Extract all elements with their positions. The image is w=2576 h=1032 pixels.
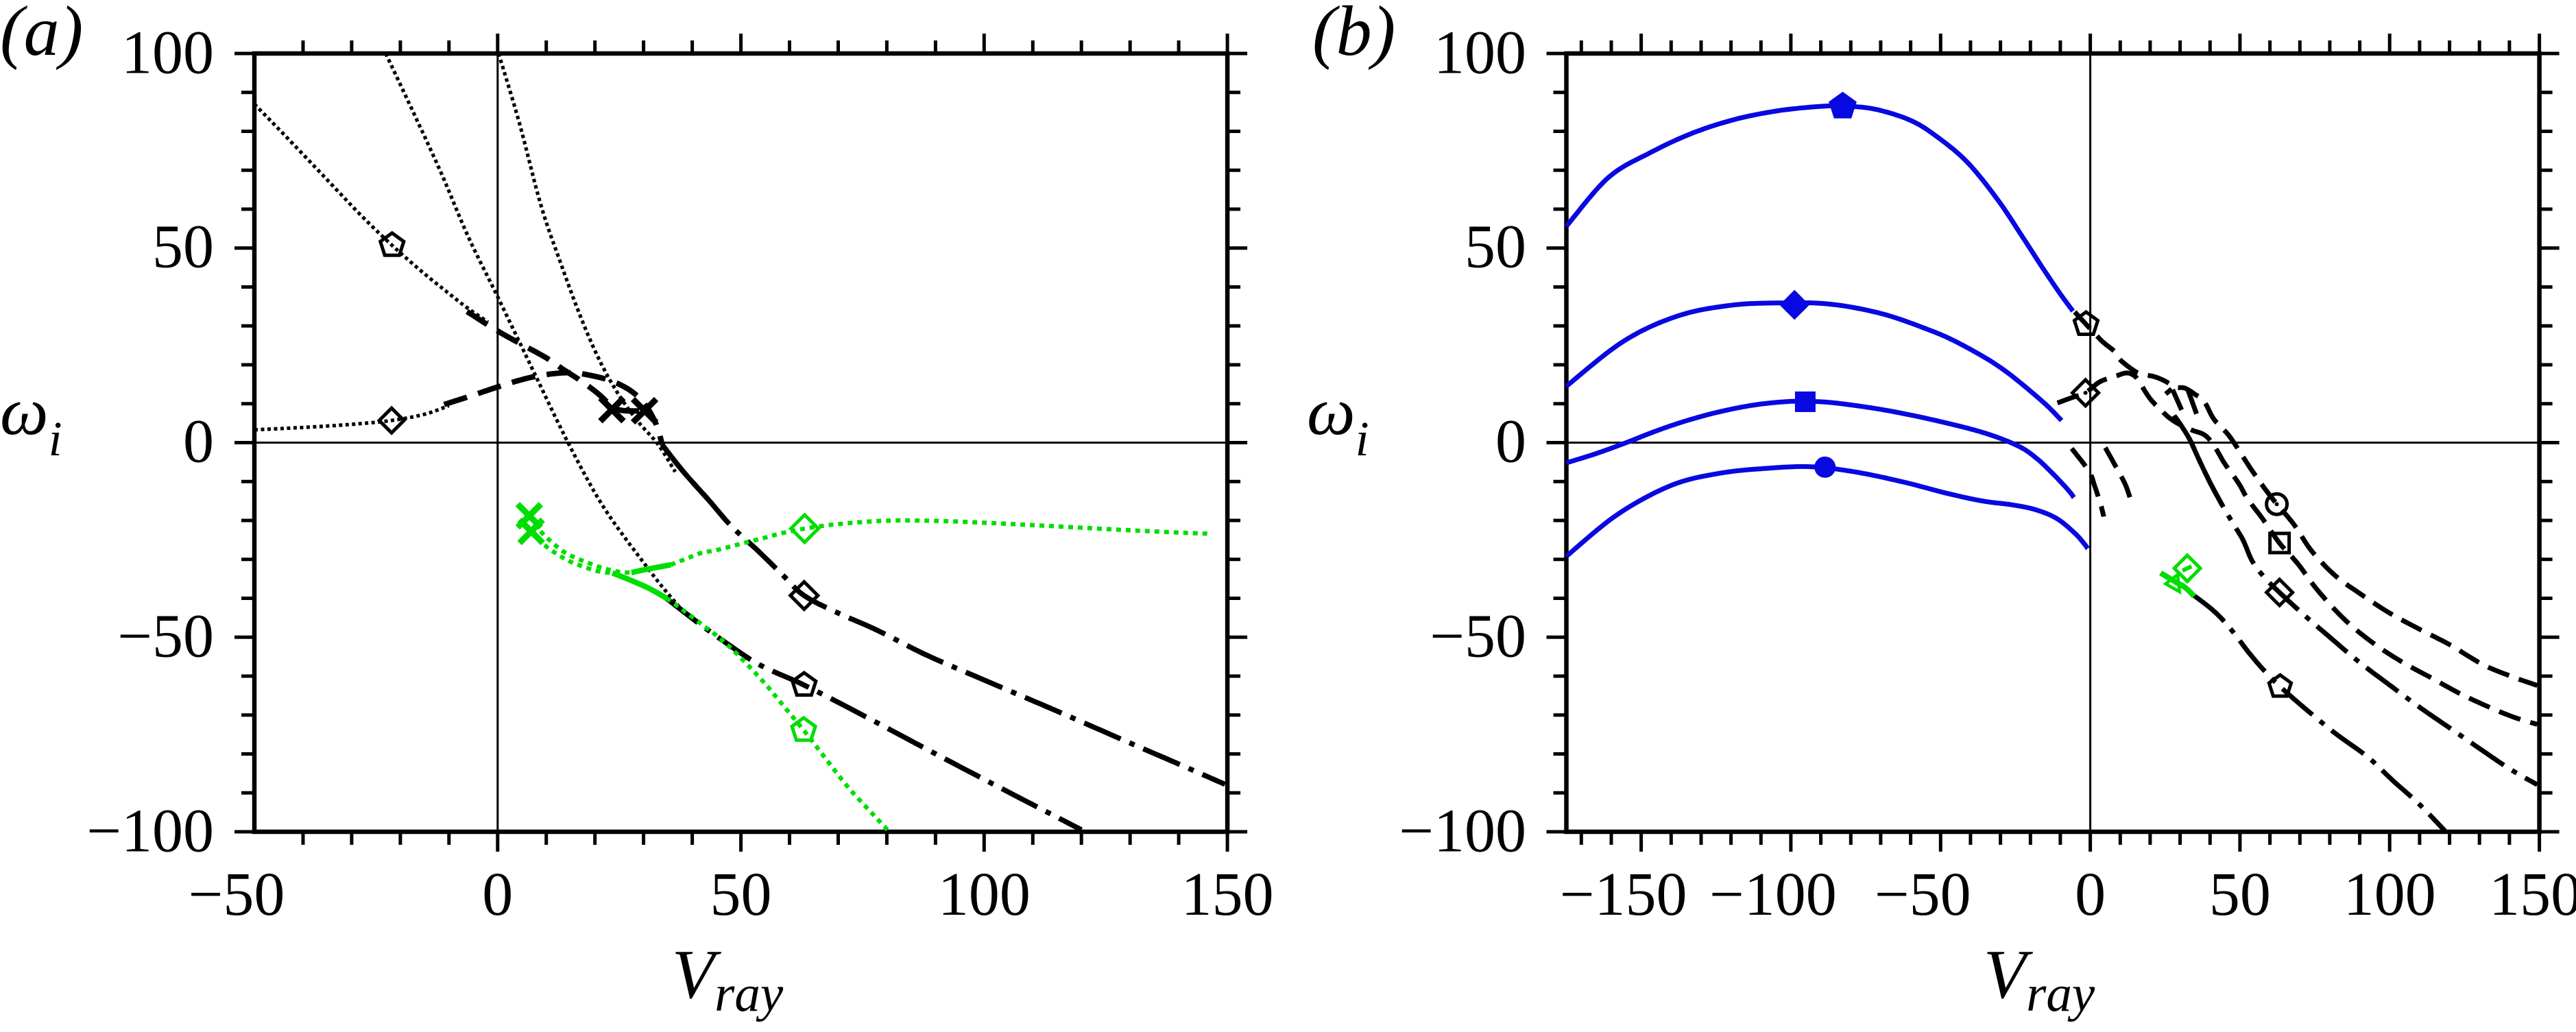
y=0 gridline <box>254 442 1227 444</box>
panel a: green X marker upper <box>518 504 541 527</box>
panel a: dashed descending branch <box>467 311 645 411</box>
panel a: open diamond marker on dotted branch <box>379 408 404 433</box>
panel b: green dash inside diamond <box>2182 566 2191 571</box>
axis tick label 100 <box>2344 859 2436 930</box>
axis tick label −50 <box>1875 859 1971 930</box>
panel a: green dotted branch (through green diamond) <box>671 520 1207 565</box>
panel a: black X saddle marker 1 <box>601 398 624 421</box>
axis ticks <box>234 34 1247 852</box>
panel a: dash-dot branch 1 (diamond) <box>662 444 1225 784</box>
axis tick label 50 <box>152 212 214 283</box>
panel a: dotted branch with pentagon marker <box>254 104 488 322</box>
y=0 gridline <box>1567 442 2540 444</box>
axis ticks <box>1547 34 2560 852</box>
axis tick label −50 <box>189 859 285 930</box>
panel a: green dotted branch (lower X) <box>531 531 613 573</box>
panel b: blue filled circle marker <box>1816 458 1834 477</box>
panel b: tangle stroke 2 <box>2173 389 2182 410</box>
y axis title omega_i (b) <box>1307 372 1369 468</box>
axis tick label 0 <box>183 407 214 477</box>
x axis title V_ray (b) <box>1984 935 2095 1024</box>
axis tick label 0 <box>2075 859 2106 930</box>
axis tick label 50 <box>2209 859 2271 930</box>
panel a: green solid segment to branch 2 <box>612 573 666 599</box>
axis tick label −100 <box>1399 795 1526 866</box>
panel b: dash-dot branch 4 (pentagon) <box>2194 596 2445 831</box>
axis tick label 100 <box>938 859 1031 930</box>
panel tag (a) <box>0 0 83 72</box>
panel b: green arrowhead marker <box>2166 575 2180 592</box>
panel b: green solid segment <box>2160 573 2194 597</box>
panel b: dashed branch P (pentagon to circle) <box>2075 312 2538 686</box>
panel b: dashed branch D (diamond to square) <box>2058 373 2538 725</box>
axis tick label −100 <box>1709 859 1837 930</box>
panel b: blue filled diamond marker <box>1781 292 1807 318</box>
panel b: blue solid curve 3 (square) <box>1567 401 2074 498</box>
axis tick label −150 <box>1560 859 1687 930</box>
panel b: black open circle marker <box>2267 494 2287 514</box>
panel b: dash-dot branch 3 (diamond) <box>2174 416 2538 785</box>
panel b: short dashed stroke beta <box>2105 448 2132 505</box>
x axis title V_ray (a) <box>672 935 783 1024</box>
panel b: black open pentagon at x=0 <box>2074 312 2097 335</box>
panel a: dash-dot branch 2 (pentagon) <box>666 599 1081 830</box>
panel a: dotted branch with diamond marker <box>254 406 449 430</box>
axis tick label 150 <box>1181 859 1274 930</box>
panel a: open pentagon marker on dash-dot 2 <box>793 673 816 695</box>
panel a: black X saddle marker 2 <box>633 399 656 422</box>
axis tick label −50 <box>117 601 214 671</box>
axis tick label −50 <box>1430 601 1526 671</box>
panel a: dotted steep branch B <box>386 53 688 616</box>
axis tick label 50 <box>1465 212 1526 283</box>
panel a: green open pentagon marker <box>792 718 815 741</box>
panel a: dotted steep branch C <box>498 53 675 472</box>
panel a: solid lead-in of branch 2 <box>666 599 697 623</box>
panel tag (b) <box>1312 0 1395 72</box>
axis tick label 0 <box>482 859 513 930</box>
panel a: green solid segment on diamond branch <box>631 565 671 573</box>
panel b: blue filled pentagon marker <box>1830 93 1855 117</box>
panel b: tangle stroke 1 <box>2166 389 2172 394</box>
x=0 gridline <box>2089 53 2091 832</box>
y axis title omega_i (a) <box>0 372 62 468</box>
panel a: dashed rising branch <box>444 373 662 445</box>
panel b: black open square marker <box>2270 533 2289 553</box>
axis tick label 100 <box>1434 17 1526 88</box>
panel b: green open diamond marker <box>2174 555 2200 581</box>
panel b: blue solid curve 2 (diamond) <box>1567 303 2062 421</box>
axis tick label 100 <box>121 17 214 88</box>
panel b: black open pentagon marker on dash-dot 4 <box>2269 675 2291 696</box>
axis tick label 0 <box>1495 407 1526 477</box>
panel b: blue solid curve 1 (pentagon) <box>1567 106 2073 311</box>
panel b: blue solid curve 4 (circle) <box>1567 466 2088 556</box>
panel a: green open diamond marker <box>791 515 819 542</box>
panel b: long lead dash of dash-dot 3 <box>2191 441 2222 505</box>
axis tick label 150 <box>2489 859 2576 930</box>
panel a: long lead dash of dash-dot 1 <box>662 444 708 499</box>
axis tick label 50 <box>710 859 772 930</box>
panel a: open pentagon marker on dotted branch <box>381 233 404 256</box>
panel a: green dotted steep branch (pentagon) <box>666 599 889 832</box>
plot box axes <box>254 53 1227 832</box>
panel b: tangle stroke 3 <box>2188 389 2197 413</box>
panel a: green dotted branch (upper X to dip) <box>529 516 631 573</box>
panel b: blue filled square marker <box>1796 393 1814 411</box>
panel b: black open diamond at x=0 <box>2073 380 2099 406</box>
x=0 gridline <box>496 53 498 832</box>
panel b: black open diamond marker on dash-dot 3 <box>2267 579 2293 605</box>
panel a: green X marker lower <box>520 520 543 543</box>
axis tick label −100 <box>86 795 214 866</box>
plot box axes <box>1567 53 2540 832</box>
panel b: short dashed stroke alpha <box>2072 448 2104 516</box>
panel a: open diamond marker on dash-dot 1 <box>791 582 818 610</box>
